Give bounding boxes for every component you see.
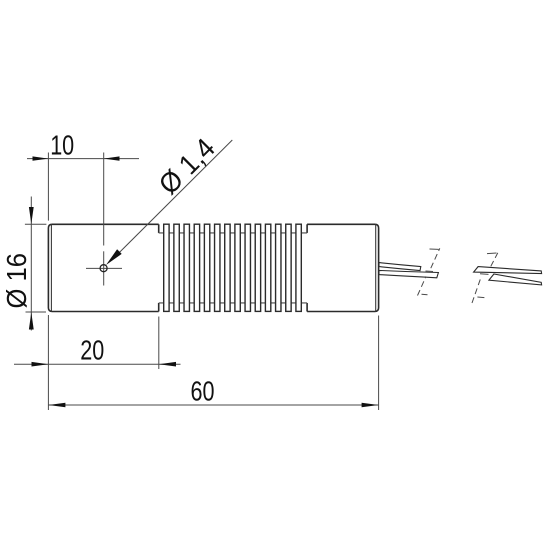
svg-text:60: 60 bbox=[191, 376, 215, 407]
svg-text:Ø 16: Ø 16 bbox=[1, 253, 32, 309]
svg-text:10: 10 bbox=[50, 130, 74, 161]
svg-text:20: 20 bbox=[80, 335, 104, 366]
